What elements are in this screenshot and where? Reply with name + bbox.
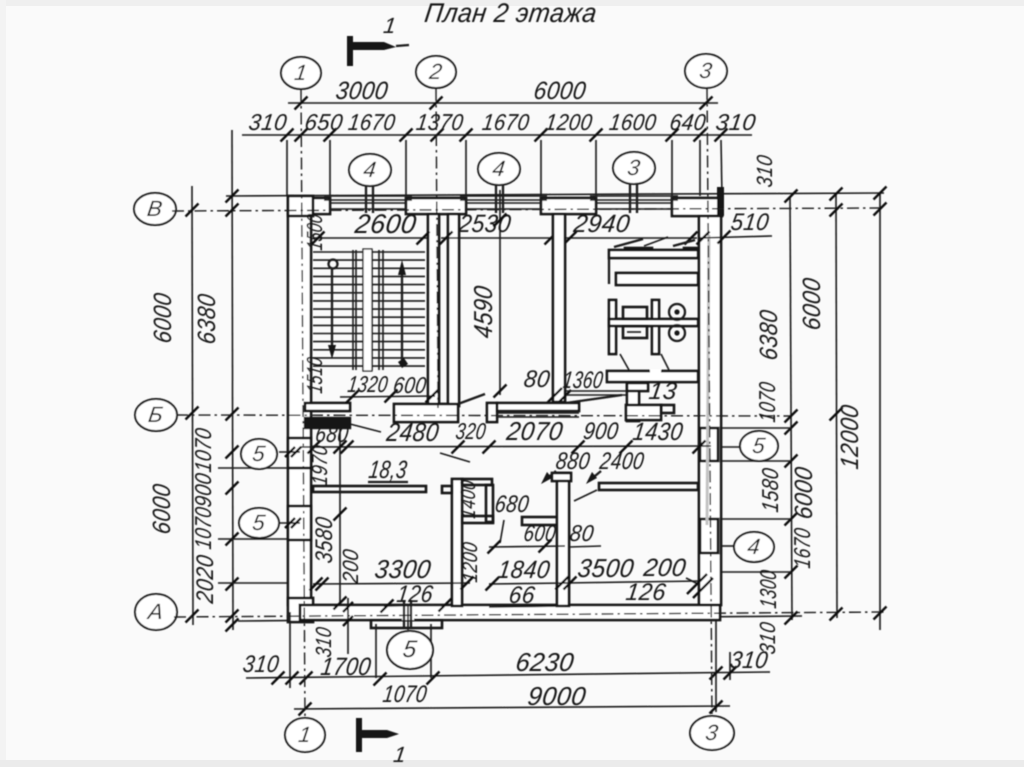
san door swing lower left xyxy=(620,354,629,370)
svg-text:900: 900 xyxy=(582,418,621,445)
dim line 66 xyxy=(489,606,565,607)
right wall niche upper xyxy=(700,428,718,461)
marker circle 5 right xyxy=(740,431,778,461)
outer wall left xyxy=(288,214,311,605)
svg-text:6000: 6000 xyxy=(532,77,588,105)
svg-text:80: 80 xyxy=(568,520,596,546)
svg-text:310: 310 xyxy=(311,625,336,659)
svg-text:1510: 1510 xyxy=(302,355,327,395)
svg-text:320: 320 xyxy=(454,418,488,444)
reference line bottom outer face xyxy=(238,616,802,621)
right dim column outer 12000 xyxy=(879,193,881,630)
san door swing top left xyxy=(614,239,643,247)
svg-text:1320: 1320 xyxy=(346,371,390,397)
outer wall right xyxy=(699,216,721,605)
svg-text:1580: 1580 xyxy=(757,466,783,514)
dimension row 310..310 xyxy=(242,134,752,136)
svg-text:1070: 1070 xyxy=(754,380,780,424)
san door swing top right xyxy=(673,240,695,246)
right extension lines xyxy=(722,427,791,429)
svg-text:План 2 этажа: План 2 этажа xyxy=(423,0,599,28)
leader 2480 xyxy=(440,453,470,462)
marker circle 5 left lower xyxy=(239,508,279,538)
partition room/san vertical xyxy=(553,214,565,402)
leader 2400 xyxy=(589,471,601,481)
svg-text:1500: 1500 xyxy=(302,212,327,252)
svg-text:310: 310 xyxy=(714,109,758,135)
axis circle 3 top xyxy=(685,54,727,88)
marker circle 5 left upper xyxy=(241,439,277,469)
svg-text:6380: 6380 xyxy=(193,292,221,346)
wall between middle and right room xyxy=(557,473,569,606)
B wall left segment upper xyxy=(305,403,350,411)
wall end cross tick xyxy=(544,388,562,406)
dimension row 3000/6000 xyxy=(288,102,718,104)
axis circle 3 bottom xyxy=(690,716,734,750)
toilet bowl left xyxy=(623,326,647,338)
svg-text:1200: 1200 xyxy=(459,540,482,583)
scanner smear right wall xyxy=(707,235,709,525)
dim line 200/3300 xyxy=(313,583,470,584)
section mark 1 top xyxy=(347,36,353,66)
window marker 4 middle xyxy=(478,153,520,185)
outer wall top xyxy=(288,198,330,214)
svg-text:6000: 6000 xyxy=(798,276,826,332)
opening 1360 lintel xyxy=(566,390,627,392)
axis circle A left xyxy=(135,594,177,630)
axis circle 1 top xyxy=(281,57,321,89)
svg-text:1670: 1670 xyxy=(347,109,398,135)
wc circle upper xyxy=(669,304,685,320)
toilet tank left xyxy=(623,307,647,319)
left wall bottom pilaster xyxy=(288,598,313,622)
svg-text:680: 680 xyxy=(493,491,531,518)
san cross wall horizontal xyxy=(609,319,698,326)
door swing at 320 opening xyxy=(458,394,485,404)
svg-text:1840: 1840 xyxy=(496,556,552,584)
svg-text:12000: 12000 xyxy=(836,403,864,471)
reference line top outer face xyxy=(226,193,884,196)
leader 680 xyxy=(350,424,381,432)
svg-text:1300: 1300 xyxy=(755,568,781,610)
axis circle 2 top xyxy=(416,56,456,88)
axis line B horizontal xyxy=(176,415,790,416)
wc circle lower xyxy=(669,325,685,341)
svg-text:680: 680 xyxy=(314,421,351,448)
B wall block below stairs xyxy=(394,404,458,422)
leader 880 xyxy=(544,471,556,481)
right dim column inner xyxy=(790,196,792,620)
axis line A horizontal xyxy=(174,612,884,617)
entrance porch bottom xyxy=(371,620,442,628)
dim row 9000 xyxy=(294,706,730,709)
stair stringers xyxy=(352,250,354,370)
B wall lintel over 2070 xyxy=(497,403,579,411)
svg-text:6380: 6380 xyxy=(755,308,783,362)
window marker 3 right xyxy=(613,152,655,184)
dimension 2600 stairwell xyxy=(313,237,427,239)
dim line 126 right xyxy=(565,581,700,583)
svg-text:1600: 1600 xyxy=(608,109,659,135)
svg-text:1370: 1370 xyxy=(415,109,466,135)
shelf wall xyxy=(522,517,558,525)
dim row 310/1700/6230/310 xyxy=(246,672,770,678)
entrance marker circle 5 bottom xyxy=(387,631,433,669)
svg-text:2070: 2070 xyxy=(504,416,565,446)
svg-text:4590: 4590 xyxy=(468,284,498,340)
svg-text:2400: 2400 xyxy=(597,448,646,475)
svg-text:126: 126 xyxy=(395,581,435,608)
outer wall bottom xyxy=(300,605,720,620)
san door swing lower right xyxy=(661,354,669,370)
room 13 west wall xyxy=(627,383,639,421)
svg-text:1670: 1670 xyxy=(789,526,815,570)
vertical dim line 1970/3580 xyxy=(339,428,341,605)
window opening 1670 top-left xyxy=(324,195,412,197)
dim line 1840 xyxy=(489,546,565,547)
svg-text:6000: 6000 xyxy=(790,465,818,521)
svg-text:600: 600 xyxy=(522,520,558,546)
left wall niche lower xyxy=(288,506,311,540)
svg-text:9000: 9000 xyxy=(526,681,588,711)
svg-text:1070: 1070 xyxy=(381,681,429,708)
svg-text:2020: 2020 xyxy=(192,553,219,606)
stair down arrow xyxy=(331,268,333,352)
window opening 1670 top-middle xyxy=(460,195,547,197)
axis line V horizontal xyxy=(172,208,884,211)
left extension lines xyxy=(218,467,310,469)
svg-text:126: 126 xyxy=(624,579,668,606)
svg-text:3580: 3580 xyxy=(311,515,338,565)
stairwell east wall xyxy=(428,214,439,404)
axis line 3 vertical xyxy=(707,88,712,716)
svg-text:1070: 1070 xyxy=(190,505,216,551)
svg-text:6000: 6000 xyxy=(148,482,176,536)
dim line 126 left xyxy=(384,605,448,606)
svg-text:650: 650 xyxy=(303,109,345,135)
svg-text:1970: 1970 xyxy=(307,443,332,487)
svg-text:1070: 1070 xyxy=(190,426,216,474)
marker circle 4 right xyxy=(734,532,774,562)
dimension 510 top right xyxy=(700,236,772,238)
partition right room top xyxy=(599,483,698,490)
room 13 south wall xyxy=(626,405,661,420)
svg-text:200: 200 xyxy=(641,554,688,582)
partition room18 top xyxy=(313,486,426,492)
window opening 1600 top-right xyxy=(590,195,678,197)
left dim column 6380 and 1070/900/1070/2020 xyxy=(232,130,233,630)
window marker 4 left xyxy=(349,154,391,186)
svg-text:600: 600 xyxy=(392,372,429,398)
svg-text:1360: 1360 xyxy=(561,367,605,394)
svg-text:2600: 2600 xyxy=(352,208,418,239)
right wall niche lower xyxy=(700,519,718,553)
svg-text:6230: 6230 xyxy=(514,647,576,677)
svg-text:900: 900 xyxy=(190,471,216,509)
svg-text:1430: 1430 xyxy=(631,418,685,446)
left wall top pilaster xyxy=(288,196,313,216)
svg-text:640: 640 xyxy=(668,109,708,135)
svg-text:200: 200 xyxy=(338,547,363,586)
axis circle B left xyxy=(135,399,177,431)
svg-text:2940: 2940 xyxy=(571,210,632,238)
axis line 2 vertical xyxy=(436,89,438,408)
stair up arrow xyxy=(401,268,403,362)
san middle wall vertical xyxy=(652,300,659,354)
svg-text:310: 310 xyxy=(755,620,780,656)
left dim column 6000/6000 xyxy=(192,186,193,625)
door swing right room xyxy=(574,490,597,501)
stairwell treads xyxy=(313,251,425,253)
axis line 1 vertical xyxy=(301,90,305,718)
svg-text:13: 13 xyxy=(647,378,679,405)
san left wall xyxy=(609,300,616,354)
ext lines bottom xyxy=(289,612,291,688)
svg-text:2480: 2480 xyxy=(384,417,441,447)
right dim column middle xyxy=(836,193,837,618)
door swing at 1360 opening xyxy=(566,395,622,403)
section mark 1 bottom xyxy=(356,718,362,752)
svg-text:66: 66 xyxy=(507,582,537,609)
svg-text:1200: 1200 xyxy=(544,109,595,135)
dimension 2530 room xyxy=(441,237,556,239)
extension lines row2 to wall xyxy=(286,140,288,196)
dimension 4590 vertical room middle xyxy=(499,190,501,395)
san top wall xyxy=(609,250,698,258)
wall right of room18 xyxy=(452,479,462,606)
svg-text:1670: 1670 xyxy=(481,109,532,135)
B wall pier xyxy=(487,403,497,422)
svg-text:80: 80 xyxy=(522,366,552,393)
svg-text:310: 310 xyxy=(241,651,281,678)
svg-text:880: 880 xyxy=(554,448,592,475)
left wall niche upper xyxy=(288,438,311,468)
dimension 2940 room xyxy=(565,237,697,239)
chimney stub top right xyxy=(717,187,724,216)
svg-text:510: 510 xyxy=(729,209,771,236)
svg-text:310: 310 xyxy=(247,109,289,135)
axis circle V left xyxy=(134,193,176,225)
stair landing dim 1320/600 xyxy=(340,396,435,397)
axis circle 1 bottom xyxy=(285,718,325,752)
corridor dim line 680/2480/320/2070/900/1430 xyxy=(300,446,711,447)
stub to partition xyxy=(442,486,452,493)
san thick wall band xyxy=(616,273,698,285)
svg-text:3300: 3300 xyxy=(373,554,433,584)
entrance door bottom xyxy=(402,606,414,620)
svg-text:18,3: 18,3 xyxy=(367,456,409,484)
svg-text:1400: 1400 xyxy=(457,478,480,519)
svg-text:6000: 6000 xyxy=(149,291,177,345)
svg-text:310: 310 xyxy=(752,153,777,189)
svg-text:3000: 3000 xyxy=(334,77,390,105)
B wall left segment lower xyxy=(305,418,350,428)
closet upper walls xyxy=(462,479,492,485)
san bottom wall xyxy=(607,371,698,382)
